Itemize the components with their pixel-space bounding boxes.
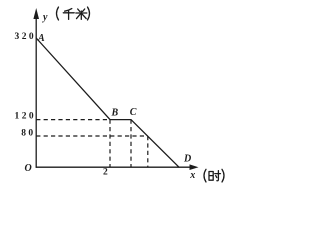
svg-text:O: O bbox=[25, 163, 32, 174]
svg-text:A: A bbox=[37, 33, 45, 44]
svg-text:C: C bbox=[130, 107, 137, 118]
svg-text:320: 320 bbox=[15, 32, 36, 42]
svg-text:x: x bbox=[189, 170, 195, 181]
svg-text:120: 120 bbox=[15, 112, 36, 122]
svg-text:y: y bbox=[42, 12, 48, 23]
svg-text:D: D bbox=[183, 154, 191, 165]
svg-text:B: B bbox=[111, 108, 119, 119]
svg-text:80: 80 bbox=[21, 129, 35, 139]
svg-text:2: 2 bbox=[103, 167, 110, 177]
